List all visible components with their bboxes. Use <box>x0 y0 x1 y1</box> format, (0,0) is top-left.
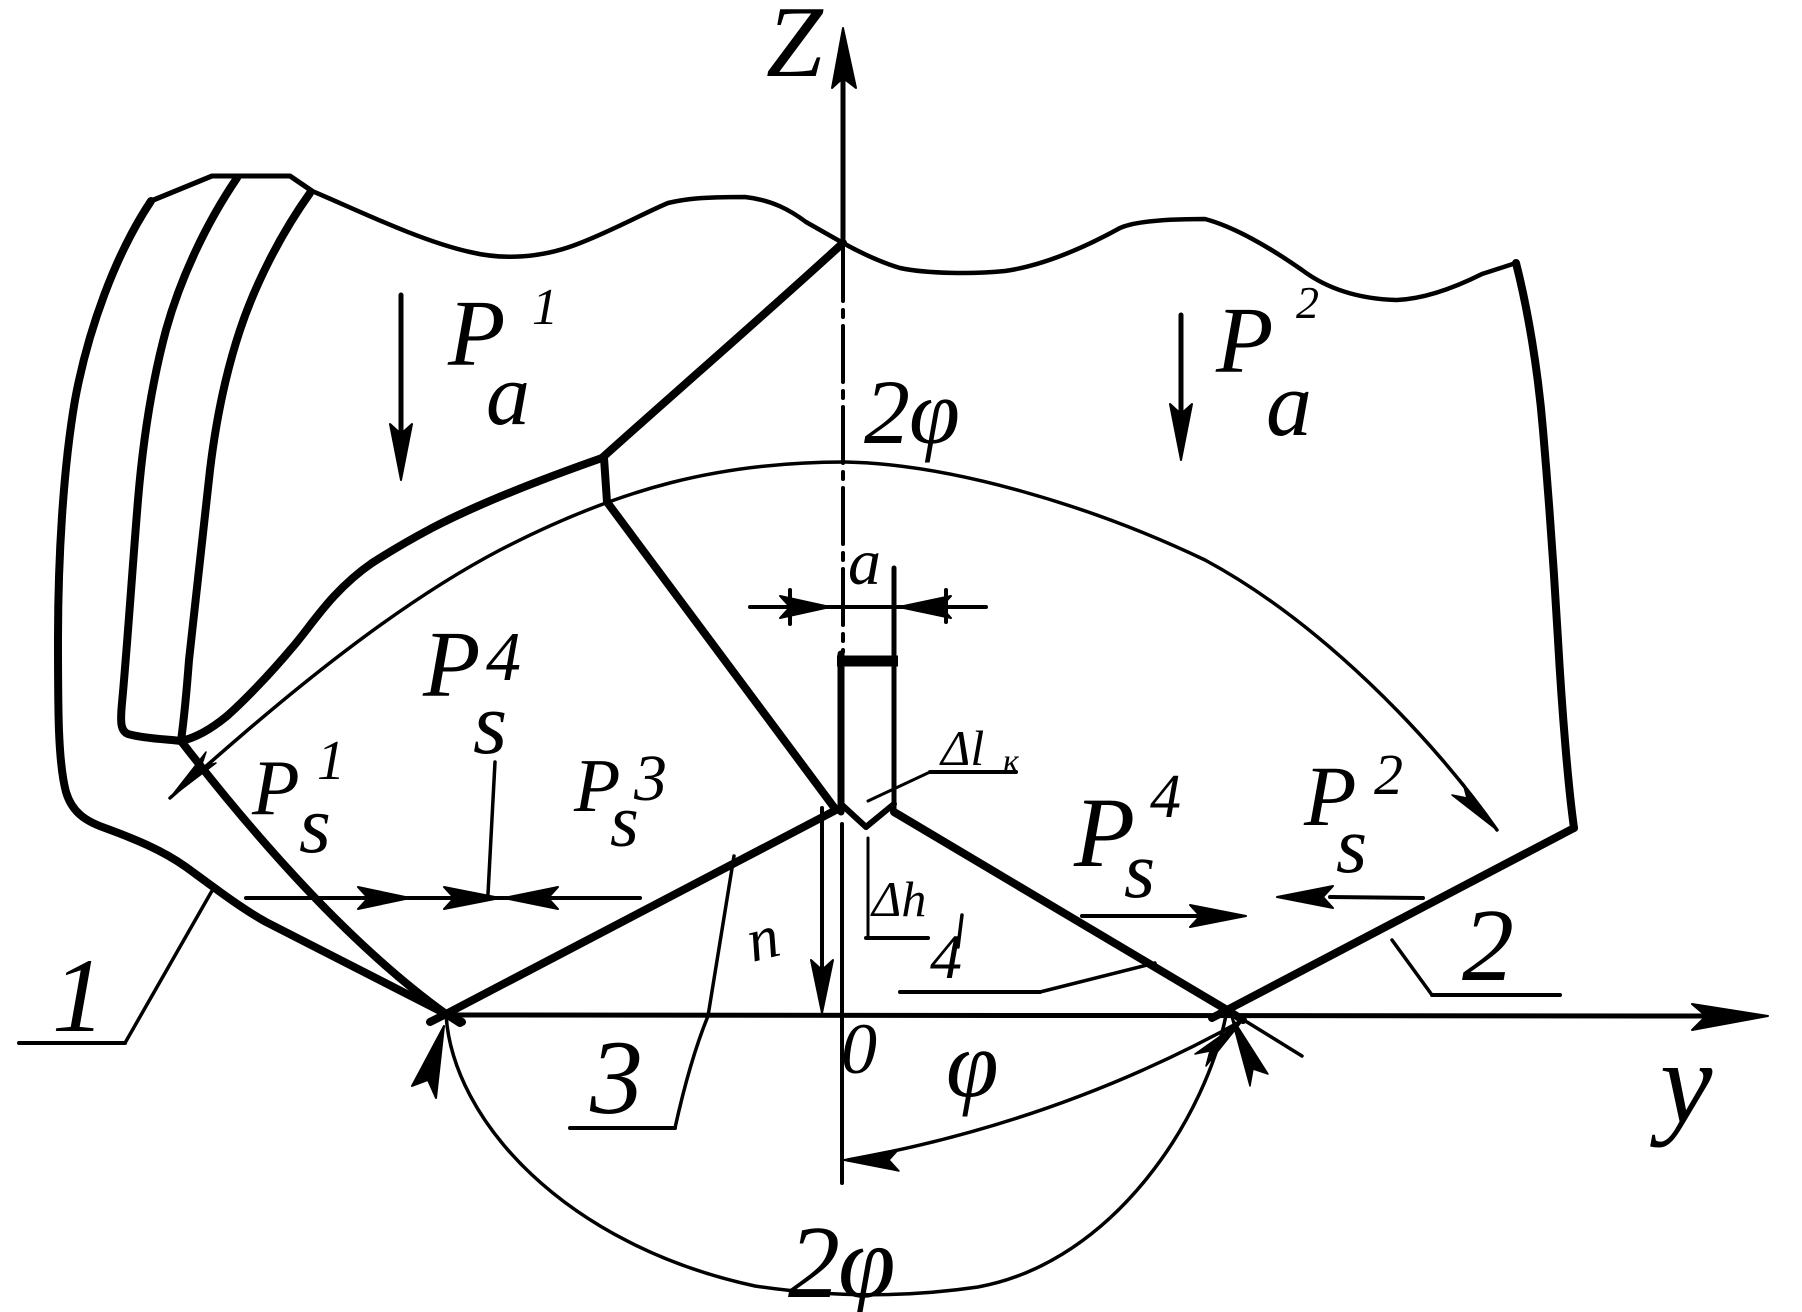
svg-text:φ: φ <box>909 361 960 463</box>
slot left edge <box>838 654 845 812</box>
top 2phi arc <box>170 462 1497 830</box>
side force line left (P_s row) <box>246 896 640 900</box>
svg-text:2: 2 <box>1296 277 1319 328</box>
y axis horizontal line <box>446 1015 1705 1016</box>
svg-text:к: к <box>1003 743 1020 780</box>
svg-text:φ: φ <box>838 1205 896 1312</box>
svg-text:2: 2 <box>864 361 910 463</box>
svg-text:2: 2 <box>1462 888 1514 1003</box>
svg-text:4: 4 <box>1150 763 1181 831</box>
top 2phi arc left arrowhead <box>170 752 216 798</box>
svg-text:s: s <box>1124 827 1155 915</box>
svg-text:P: P <box>1215 289 1273 393</box>
svg-text:1: 1 <box>52 937 105 1054</box>
die 1 face arc lower (to heel) <box>181 458 602 741</box>
phi arc left arrowhead <box>843 1149 899 1171</box>
svg-text:a: a <box>1266 353 1312 455</box>
bottom 2phi arc right arrowhead <box>1231 1016 1268 1086</box>
svg-text:n: n <box>740 902 787 975</box>
groove flank from heel to left vertex <box>181 741 460 1023</box>
svg-text:Δh: Δh <box>870 871 926 927</box>
Z axis arrowhead <box>832 28 856 88</box>
bottom 2phi arc left arrowhead <box>412 1026 444 1098</box>
die 1 inner ridge <box>181 193 310 741</box>
force arrow P_a^2 <box>1170 315 1192 460</box>
dimension n line with down arrowhead <box>811 808 833 1013</box>
right die outer right edge <box>1516 263 1574 828</box>
slot bottom notch <box>841 804 894 827</box>
arrowhead P_s^1 <box>358 887 410 909</box>
svg-text:2: 2 <box>1374 742 1403 807</box>
dimension a right arrowhead <box>899 596 951 618</box>
svg-text:s: s <box>473 676 507 773</box>
phi arc <box>848 1020 1243 1160</box>
right wedge flank (surface 4) <box>894 812 1243 1020</box>
svg-text:φ: φ <box>946 1011 999 1117</box>
side force arrow P_s^4 right <box>1082 905 1246 927</box>
svg-text:4: 4 <box>930 921 962 992</box>
dimension a left arrowhead <box>780 596 830 618</box>
die 1 outer ridge and bottom edge to wedge vertex <box>58 201 462 1022</box>
die 1 face arc upper (from Z crossing down-left) <box>602 243 843 458</box>
bottom 2phi arc <box>446 1010 1227 1295</box>
workpiece wavy top outline <box>312 191 1516 300</box>
left wedge upper face <box>604 458 836 810</box>
force arrow P_a^1 <box>390 295 412 480</box>
side force arrow P_s^2 <box>1277 886 1423 908</box>
svg-text:a: a <box>486 347 530 444</box>
right die bottom edge (surface 2 side) <box>1212 828 1574 1018</box>
svg-text:a: a <box>848 526 881 599</box>
svg-text:y: y <box>1650 1017 1713 1148</box>
arrowhead P_s^4 left <box>444 887 500 909</box>
left wedge lower face (surface 3) <box>430 810 836 1022</box>
svg-text:2: 2 <box>788 1205 840 1312</box>
y axis arrowhead <box>1692 1004 1768 1030</box>
svg-text:1: 1 <box>532 279 558 336</box>
phi arc right arrowhead <box>1195 1020 1243 1066</box>
svg-text:Z: Z <box>766 0 824 99</box>
top 2phi arc right arrowhead <box>1452 783 1497 830</box>
svg-text:s: s <box>1336 802 1367 890</box>
svg-text:s: s <box>299 779 331 870</box>
svg-text:P: P <box>422 613 480 717</box>
Z axis vertical line <box>842 78 843 1183</box>
dimension a: line and arrows <box>750 590 986 624</box>
svg-text:3: 3 <box>589 1019 643 1136</box>
svg-text:s: s <box>610 781 639 863</box>
die 1 top edge <box>151 176 312 201</box>
die 1 middle ridge <box>121 178 237 741</box>
flank 4 extension below axis <box>1247 1022 1302 1056</box>
slot right edge <box>892 568 897 812</box>
leader P_s^4 left <box>488 762 495 894</box>
svg-text:0: 0 <box>841 1009 877 1089</box>
slot top bar <box>837 656 898 667</box>
svg-text:Δl: Δl <box>939 720 984 776</box>
svg-text:P: P <box>251 744 300 831</box>
arrowhead P_s^3 <box>504 887 558 909</box>
